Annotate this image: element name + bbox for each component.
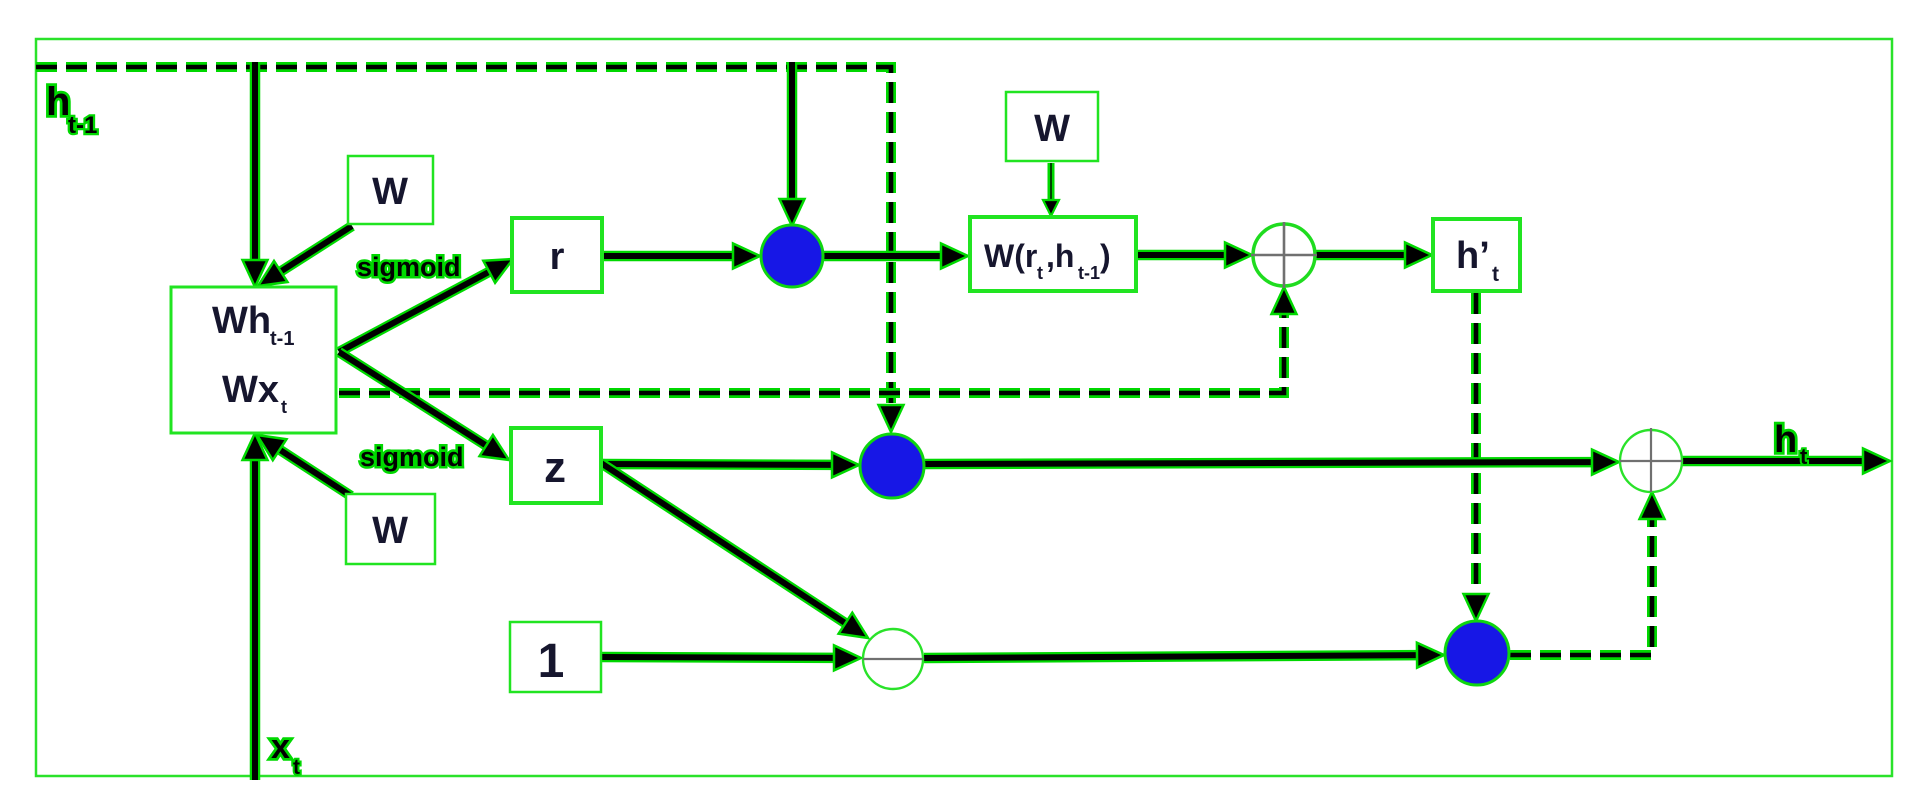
svg-text:sigmoid: sigmoid	[357, 252, 461, 282]
node: multiply 3 (bottom, blue)	[1445, 621, 1509, 685]
wire: r box to multiply node 1	[602, 244, 760, 269]
wire: one-minus node to bottom multiply node	[924, 643, 1444, 668]
wire: 1 box to one-minus node	[601, 645, 861, 670]
block W (upper-left weight)	[348, 156, 433, 224]
svg-text:r: r	[550, 236, 565, 278]
svg-text:h: h	[46, 80, 70, 124]
svg-text:W: W	[1034, 108, 1070, 150]
wire: from W box (lower) into Wh box bottom	[257, 435, 351, 496]
node: multiply 2 (z gate, blue)	[860, 434, 924, 498]
block h'_t (candidate state)	[1433, 219, 1520, 291]
wire: from W box (upper-left) into Wh box	[258, 226, 352, 286]
wire: z box down to one-minus node	[601, 463, 868, 638]
block z (update gate)	[511, 428, 601, 503]
svg-text:h: h	[1774, 419, 1797, 461]
svg-text:Wh: Wh	[212, 300, 271, 342]
svg-text:): )	[1100, 238, 1111, 274]
svg-text:t-1: t-1	[270, 328, 294, 350]
svg-text:t: t	[293, 756, 300, 779]
wire: Wh box to r box (sigmoid)	[339, 259, 513, 352]
svg-text:,h: ,h	[1046, 238, 1074, 274]
svg-text:sigmoid: sigmoid	[360, 442, 464, 472]
block constant 1	[510, 622, 601, 692]
svg-text:W(r: W(r	[984, 238, 1037, 274]
svg-text:t: t	[281, 397, 287, 417]
svg-text:t-1: t-1	[1078, 263, 1100, 283]
block r (reset gate)	[512, 218, 602, 292]
node: adder (plus circle) after W(rt,ht-1)	[1251, 222, 1317, 288]
svg-text:1: 1	[538, 635, 565, 688]
block Wh_t-1 / Wx_t	[171, 287, 336, 433]
wire: h_t-1 vertical into Wh box top	[243, 62, 268, 287]
wire: W(rt,ht-1) box to adder node	[1137, 243, 1252, 268]
node: right adder (plus circle) output h_t	[1620, 428, 1682, 492]
wire: right adder node to output h_t	[1682, 449, 1890, 474]
svg-text:x: x	[271, 728, 290, 766]
svg-text:z: z	[544, 443, 566, 492]
node: one-minus circle (1-z)	[863, 629, 923, 689]
wire: x_t vertical input into Wh box bottom	[243, 433, 268, 780]
svg-text:t: t	[1037, 263, 1043, 283]
wire: dashed from h'_t box down to bottom multiply node	[1464, 293, 1489, 621]
wire: multiply node 1 to W(rt,ht-1) box	[823, 244, 968, 269]
wire: dashed h_t-1 recurrent feed from top-left, down into z multiply node	[36, 67, 904, 432]
wire: W box (top) down into W(rt,ht-1) box	[1043, 163, 1059, 216]
svg-text:W: W	[372, 510, 408, 552]
svg-text:t: t	[1492, 263, 1499, 286]
block W (lower-left weight)	[346, 494, 435, 564]
svg-text:Wx: Wx	[222, 369, 279, 411]
node: multiply 1 (r gate, blue)	[761, 225, 823, 287]
wire: from top dashed line down into multiply node 1	[780, 62, 805, 226]
svg-text:t: t	[1800, 444, 1808, 469]
svg-text:h’: h’	[1456, 235, 1490, 277]
wire: Wh box to z box (sigmoid)	[339, 352, 509, 460]
block W (top weight)	[1006, 92, 1098, 161]
svg-text:t-1: t-1	[68, 112, 97, 139]
block W(rt,ht-1)	[970, 217, 1136, 291]
wire: z box to multiply node 2	[602, 452, 859, 477]
svg-text:W: W	[372, 171, 408, 213]
wire: dashed from bottom multiply node up into right adder node	[1510, 492, 1665, 655]
wire: adder node to h'_t box	[1316, 243, 1432, 268]
wire: multiply node 2 to right adder node	[925, 450, 1619, 475]
wire: dashed from Wh/Wx box to adder node bottom	[339, 287, 1297, 393]
